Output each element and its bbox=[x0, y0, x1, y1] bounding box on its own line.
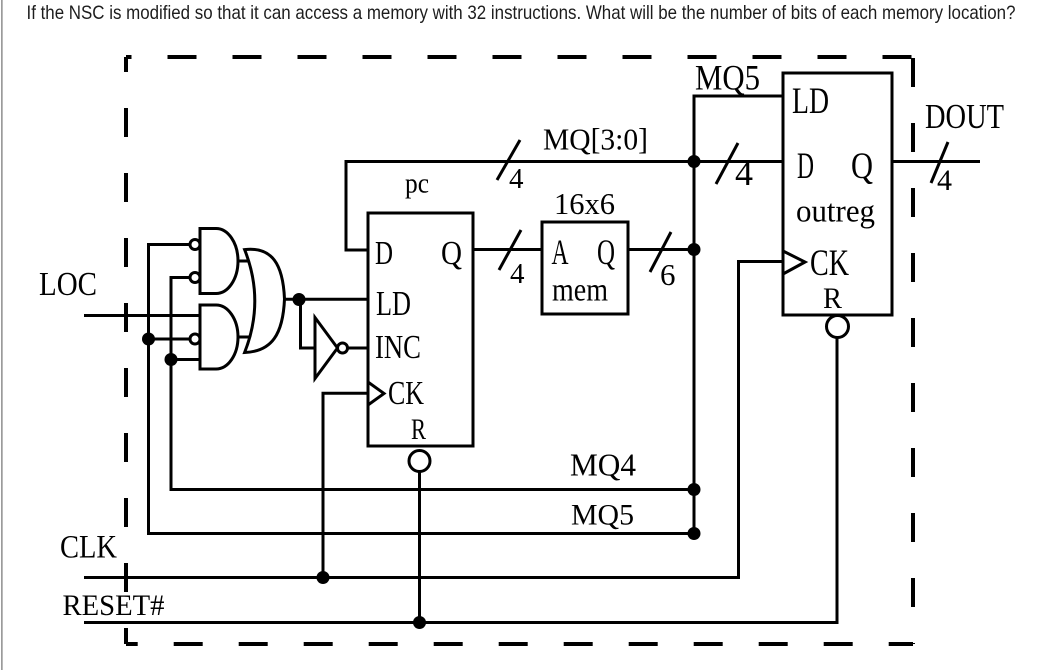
svg-text:D: D bbox=[797, 146, 814, 187]
svg-text:MQ4: MQ4 bbox=[570, 447, 636, 483]
svg-text:A: A bbox=[552, 232, 569, 272]
svg-text:CK: CK bbox=[810, 243, 849, 284]
svg-text:4: 4 bbox=[510, 258, 525, 290]
svg-text:6: 6 bbox=[660, 257, 676, 292]
svg-text:CK: CK bbox=[388, 375, 424, 412]
svg-text:R: R bbox=[823, 282, 842, 315]
svg-text:Q: Q bbox=[441, 235, 462, 272]
svg-text:16x6: 16x6 bbox=[554, 186, 615, 221]
svg-text:LD: LD bbox=[792, 81, 829, 122]
svg-text:MQ[3:0]: MQ[3:0] bbox=[543, 122, 648, 157]
svg-text:4: 4 bbox=[509, 163, 524, 195]
svg-text:DOUT: DOUT bbox=[925, 97, 1004, 136]
svg-text:Q: Q bbox=[597, 232, 615, 272]
svg-text:R: R bbox=[411, 413, 426, 446]
svg-text:MQ5: MQ5 bbox=[695, 58, 760, 98]
svg-text:CLK: CLK bbox=[60, 530, 117, 566]
svg-text:outreg: outreg bbox=[796, 193, 875, 229]
svg-text:LD: LD bbox=[376, 284, 411, 323]
svg-text:RESET#: RESET# bbox=[63, 589, 165, 622]
svg-text:D: D bbox=[375, 235, 393, 272]
svg-text:INC: INC bbox=[375, 329, 421, 366]
svg-text:LOC: LOC bbox=[39, 266, 97, 303]
svg-text:mem: mem bbox=[552, 273, 608, 309]
svg-text:If the NSC is modified so that: If the NSC is modified so that it can ac… bbox=[27, 2, 1016, 24]
svg-text:Q: Q bbox=[851, 146, 873, 187]
svg-text:4: 4 bbox=[735, 153, 753, 193]
svg-text:MQ5: MQ5 bbox=[571, 499, 634, 532]
svg-text:4: 4 bbox=[937, 164, 952, 197]
svg-text:pc: pc bbox=[405, 168, 429, 200]
